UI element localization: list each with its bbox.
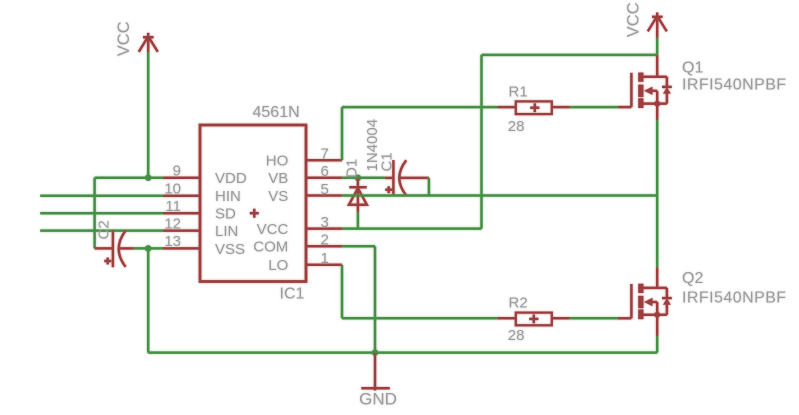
wire R2 to Q2 gate	[570, 317, 619, 320]
supply VCC left arrow	[139, 33, 158, 52]
transistor Q1	[618, 55, 672, 120]
wire R1 to Q1 gate	[570, 106, 619, 109]
wire HO up	[341, 107, 344, 160]
wire VCC pin3 to rail	[342, 227, 482, 230]
resistor R1	[498, 101, 570, 114]
wire HIN input	[40, 195, 163, 198]
net label VCC left	[115, 21, 133, 56]
name label R1	[509, 83, 528, 100]
wire Q1 source to VS node	[656, 120, 659, 196]
wire SD input	[40, 212, 163, 215]
wire LIN input	[40, 229, 163, 232]
value label 28 (R2)	[508, 327, 525, 344]
name label Q1	[682, 60, 703, 77]
pin 10 HIN	[163, 181, 241, 206]
value label 1N4004	[364, 119, 381, 172]
net label VCC right	[625, 2, 643, 37]
wire COM to down	[342, 245, 375, 248]
wire VCC rail vertical	[480, 55, 483, 229]
pin 12 LIN	[163, 215, 238, 240]
wire VS node to Q2 drain	[656, 196, 659, 268]
value label IRFI540NPBF (Q2)	[682, 290, 787, 307]
node junction VB / D1	[355, 175, 362, 182]
pin 5 VS	[268, 181, 342, 205]
pin 7 HO	[266, 146, 342, 170]
wire VDD vertical down to C2	[93, 178, 96, 249]
ground symbol	[361, 353, 390, 391]
pin 6 VB	[268, 163, 342, 187]
name label Q2	[682, 270, 703, 287]
value label C1	[378, 152, 395, 171]
pin 1 LO	[268, 250, 342, 274]
transistor Q2	[618, 267, 672, 336]
name label R2	[509, 294, 528, 311]
wire ground rail	[148, 351, 657, 354]
wire Q2 source down	[656, 336, 659, 353]
wire VDD horizontal pin 9	[95, 176, 163, 179]
wire VCC rail top	[482, 54, 658, 57]
diode D1	[349, 178, 367, 212]
wire D1 anode to VCC net	[357, 212, 360, 229]
wire VSS vertical to ground rail	[147, 248, 150, 352]
net label GND	[359, 390, 397, 409]
wire COM vertical	[374, 246, 377, 352]
value label 28 (R1)	[508, 118, 525, 135]
capacitor C1	[385, 160, 429, 195]
wire HO to R1	[342, 106, 498, 109]
IC origin cross	[250, 209, 259, 218]
value label 4561N	[253, 104, 300, 121]
wire VB pin6 to C1	[342, 177, 385, 180]
op-amp IC1 body	[200, 125, 306, 282]
name label D1	[343, 159, 360, 178]
wire LO down	[341, 265, 344, 319]
value label C2	[96, 220, 113, 239]
wire LO to R2	[342, 317, 498, 320]
resistor R2	[498, 313, 570, 326]
pin 9 VDD	[163, 163, 247, 187]
wire VCC arrow to rail	[656, 38, 659, 55]
capacitor C2	[95, 230, 134, 267]
node junction VSS pin13	[145, 245, 152, 252]
wire C1 down to VS	[428, 178, 431, 196]
wire VCC left vertical to VDD	[147, 51, 150, 178]
pin 13 VSS	[163, 233, 245, 258]
node junction ground	[372, 349, 379, 356]
wire VS output	[342, 194, 657, 197]
value label IRFI540NPBF (Q1)	[682, 77, 787, 94]
name label IC1	[280, 286, 305, 303]
pin 11 SD	[163, 198, 236, 223]
pin 3 VCC	[257, 214, 342, 238]
node junction VDD pin9	[145, 174, 152, 181]
wire C2 to VSS pin 13	[134, 247, 164, 250]
pin 2 COM	[253, 232, 342, 256]
supply VCC right arrow	[648, 12, 667, 37]
